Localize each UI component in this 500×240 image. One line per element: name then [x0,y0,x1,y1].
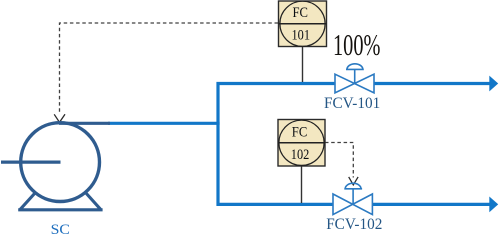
instrument FC-101 circle [280,1,325,46]
pump SC circle [21,123,100,202]
svg-text:FC: FC [293,5,309,21]
valve FCV-101 body [335,74,374,93]
instrument FC-101 box [279,1,327,47]
svg-text:FCV-101: FCV-101 [324,95,380,112]
valve FCV-102 stem [352,189,354,204]
wire: FC-101 tap stub [302,47,304,83]
valve FCV-101 stem [354,69,356,83]
wire: bottom pipe after FCV-102 [372,203,490,206]
valve FCV-102 body [333,194,372,215]
wire: dashed signal FC-101 to pump SC [60,23,279,115]
instrument FC-101 divider line [279,23,327,25]
pump suction line [1,160,61,163]
svg-text:101: 101 [292,27,311,43]
instrument FC-102 box [278,120,325,167]
valve FCV-102 actuator dome [344,183,362,189]
svg-text:100%: 100% [333,27,380,62]
svg-text:FC: FC [292,125,308,141]
pump SC base [18,188,102,210]
wire: FC-102 tap stub [301,166,303,203]
arrowhead into pump [54,114,65,122]
svg-text:FCV-102: FCV-102 [326,216,382,233]
wire: dashed signal FC-102 to FCV-102 [325,143,353,178]
wire: pump discharge to header and branch pipes [218,84,335,205]
arrowhead into FCV-102 actuator [349,177,358,185]
pump discharge stub [59,122,110,125]
arrow bottom pipe [489,197,498,213]
svg-text:SC: SC [51,222,70,235]
valve FCV-101 actuator dome [346,64,364,70]
arrow top pipe [489,76,498,92]
instrument FC-102 circle [279,120,324,165]
wire: discharge pipe segment [108,122,220,125]
instrument FC-102 divider line [278,142,325,144]
svg-text:102: 102 [291,147,310,163]
wire: top pipe after FCV-101 [374,82,490,85]
